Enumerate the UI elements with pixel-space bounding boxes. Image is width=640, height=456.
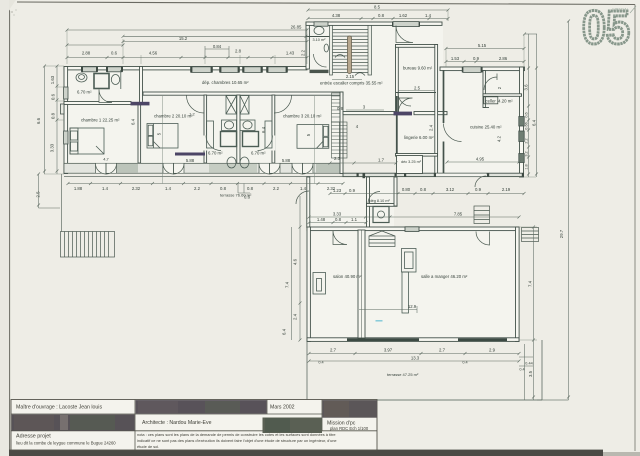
title col line c xyxy=(321,400,323,431)
french door pair 3 xyxy=(259,164,280,173)
bureau top wall xyxy=(396,45,438,48)
salon chimney box xyxy=(313,273,326,295)
svg-text:1.43: 1.43 xyxy=(286,51,295,56)
svg-text:3.33: 3.33 xyxy=(50,143,55,152)
cuisine right wall xyxy=(520,67,524,177)
shower bath left xyxy=(221,132,237,147)
arc bath right door xyxy=(258,136,273,151)
arc entry top door xyxy=(396,26,413,43)
window top wall w4 xyxy=(220,67,239,73)
svg-text:2.7: 2.7 xyxy=(439,347,446,352)
bath wardrobe left xyxy=(207,121,214,148)
svg-text:nota : ces plans sont les plan: nota : ces plans sont les plans de la de… xyxy=(137,432,336,437)
basement stair lower xyxy=(332,122,348,158)
lintel entry closet xyxy=(175,153,205,156)
arc middle door xyxy=(296,191,309,204)
dim right cuisine outer chain xyxy=(536,34,538,177)
bureau bottom wall xyxy=(396,92,436,94)
bathroom block right wall xyxy=(272,95,275,163)
title col line b xyxy=(266,400,268,415)
wing bottom wall window segs xyxy=(117,164,138,173)
bath left door gap xyxy=(204,136,208,151)
svg-text:3.97: 3.97 xyxy=(384,347,393,352)
lower block top wall xyxy=(307,227,519,231)
dim lower-left vertical chain xyxy=(299,196,301,340)
cellar left wall xyxy=(483,71,485,108)
basin bath right counter xyxy=(240,120,255,131)
lintel bathroom door xyxy=(131,102,150,106)
bureau left wall xyxy=(396,45,399,115)
arc chambre2 door xyxy=(187,96,205,114)
dim left wing outer chain xyxy=(44,66,46,174)
shelving salle a manger top xyxy=(369,236,395,247)
cellar label box xyxy=(484,97,498,104)
wing bottom wall band xyxy=(64,163,343,173)
ext right xyxy=(448,10,568,400)
svg-text:3.5: 3.5 xyxy=(528,370,533,377)
dim lower block top row2 xyxy=(309,222,366,224)
svg-text:3.33: 3.33 xyxy=(333,211,342,216)
svg-text:6.4: 6.4 xyxy=(131,118,136,125)
window cuisine right c xyxy=(519,154,524,163)
stair central rail xyxy=(348,36,352,74)
svg-text:0.4: 0.4 xyxy=(462,361,467,365)
corridor wall xyxy=(143,92,343,95)
window left wall bump xyxy=(61,104,65,114)
bathrooms center: closets xyxy=(226,96,237,115)
corner speckles xyxy=(11,11,12,12)
svg-text:0.8: 0.8 xyxy=(220,186,227,191)
svg-text:6.70 m²: 6.70 m² xyxy=(251,151,266,156)
svg-text:4.56: 4.56 xyxy=(149,51,158,56)
page border left xyxy=(9,11,11,450)
redacted cell row2 left xyxy=(12,415,135,431)
redacted cell row1 xyxy=(136,400,267,414)
arc cellar door xyxy=(484,74,497,91)
svg-text:13.3: 13.3 xyxy=(411,355,420,360)
svg-text:0.4: 0.4 xyxy=(519,368,524,372)
svg-text:2.86: 2.86 xyxy=(499,56,508,61)
terrace small mark xyxy=(376,320,383,322)
salle deau wall vertical xyxy=(367,177,370,228)
title row line 2 xyxy=(11,430,377,432)
svg-text:1.8: 1.8 xyxy=(525,164,529,169)
steps middle (to salle a manger) xyxy=(474,206,490,224)
svg-text:celler 4.20 m²: celler 4.20 m² xyxy=(486,98,514,103)
dim 3 corridor xyxy=(346,109,384,111)
french door pair 4 xyxy=(292,164,313,173)
window left wall b xyxy=(64,131,68,144)
page border top-left diagonal xyxy=(1,1,10,12)
page border top xyxy=(17,2,635,5)
salle deau wall horizontal xyxy=(367,204,398,207)
svg-text:chambre 2 20.10 m²: chambre 2 20.10 m² xyxy=(154,113,193,118)
stair block left line xyxy=(329,25,331,75)
basement stair upper xyxy=(332,93,348,158)
svg-text:1.48: 1.48 xyxy=(317,217,326,222)
dim lower block 13.3 xyxy=(309,360,519,362)
ext cuisine top xyxy=(446,34,524,67)
dim chain 26.85 xyxy=(67,29,307,31)
svg-text:0.6: 0.6 xyxy=(111,51,118,56)
svg-text:1.23: 1.23 xyxy=(333,188,342,193)
svg-text:2.2: 2.2 xyxy=(525,138,529,143)
svg-text:dép. chambres 10.65 m²: dép. chambres 10.65 m² xyxy=(202,80,249,85)
dim chain entry row2 xyxy=(308,18,448,20)
window top wall w1 xyxy=(82,67,97,72)
shower bath right xyxy=(243,132,259,147)
rotated dimension labels xyxy=(36,49,565,377)
dim far right 29.7 xyxy=(568,21,570,400)
svg-text:0.84: 0.84 xyxy=(213,44,222,49)
svg-text:2.2: 2.2 xyxy=(194,186,201,191)
svg-text:1.4: 1.4 xyxy=(300,186,307,191)
dim chain row3 left xyxy=(67,57,307,59)
dim 2.5 bureau line xyxy=(398,90,435,92)
window lower top wall xyxy=(405,227,419,232)
svg-text:6.6: 6.6 xyxy=(36,117,41,124)
cellar bottom wall xyxy=(483,94,522,97)
svg-text:plan RDC Ech 1/100: plan RDC Ech 1/100 xyxy=(330,426,369,431)
french door pair 2 xyxy=(163,164,184,173)
svg-text:14B2/GA/: 14B2/GA/ xyxy=(612,8,628,12)
svg-text:2.2: 2.2 xyxy=(273,186,280,191)
stair arrow marks xyxy=(335,55,345,58)
arc salon top door xyxy=(333,231,347,245)
caps right block bottom wall xyxy=(357,173,525,178)
basin partition bathroom xyxy=(120,70,122,89)
dim lower block top chain xyxy=(309,216,519,218)
svg-text:1.88: 1.88 xyxy=(74,186,83,191)
svg-text:6.4: 6.4 xyxy=(282,328,287,335)
svg-text:5.15: 5.15 xyxy=(478,43,487,48)
window top wall w2 xyxy=(107,67,122,72)
svg-text:4.2: 4.2 xyxy=(497,135,502,142)
svg-text:2.5: 2.5 xyxy=(36,191,41,198)
window cuisine right a xyxy=(519,117,524,127)
svg-text:6.70 m²: 6.70 m² xyxy=(77,90,92,95)
bathroom bottom wall xyxy=(64,102,131,105)
window top wall w3 xyxy=(191,67,212,73)
room interior light fills xyxy=(66,24,523,338)
lintel corridor door xyxy=(394,112,413,116)
window caps xyxy=(81,22,483,73)
dim 4.95 cuisine xyxy=(447,161,519,163)
svg-text:3.2: 3.2 xyxy=(525,151,529,156)
window top wall w6 xyxy=(267,67,287,73)
svg-text:0.66: 0.66 xyxy=(525,122,529,129)
lower block bottom wall xyxy=(307,338,519,342)
svg-text:chambre 3 20.10 m²: chambre 3 20.10 m² xyxy=(283,113,322,118)
svg-text:indicatif ce ne sont pas des: indicatif ce ne sont pas des plans d'exé… xyxy=(137,438,337,443)
entry wc partition xyxy=(306,36,330,38)
svg-text:lieu dit la combe de leygue co: lieu dit la combe de leygue commune le B… xyxy=(16,441,116,446)
bathroom block center divider xyxy=(237,95,240,163)
svg-text:0.80: 0.80 xyxy=(402,187,411,192)
dim left 2.5 chain xyxy=(38,174,40,208)
middle block left wall xyxy=(307,177,310,228)
entry vestibule dark wall xyxy=(310,70,329,73)
svg-text:4.95: 4.95 xyxy=(476,156,485,161)
connector line left xyxy=(61,174,63,232)
ext lines top left xyxy=(67,28,307,64)
basin bath left counter xyxy=(222,120,237,131)
steps right of salle a manger xyxy=(522,228,539,242)
arc bath left door xyxy=(206,136,221,151)
svg-text:0.9: 0.9 xyxy=(337,106,344,111)
arc salle deau door xyxy=(368,192,380,204)
svg-text:1.63: 1.63 xyxy=(50,75,55,84)
svg-text:1.1: 1.1 xyxy=(351,217,358,222)
svg-text:0.4: 0.4 xyxy=(318,361,323,365)
salle deau right wall xyxy=(394,177,397,206)
svg-text:12.9: 12.9 xyxy=(408,304,417,309)
svg-text:dég 8.10 m²: dég 8.10 m² xyxy=(370,199,391,203)
svg-text:2.3: 2.3 xyxy=(334,156,341,161)
svg-text:1.62: 1.62 xyxy=(399,13,408,18)
title col line a xyxy=(134,400,136,451)
svg-text:terrasse 47.25 m²: terrasse 47.25 m² xyxy=(387,372,419,377)
entry block left wall xyxy=(306,22,309,69)
basin bathroom top-left xyxy=(111,75,119,85)
svg-text:2.15: 2.15 xyxy=(346,74,355,79)
window left wall a xyxy=(64,87,68,99)
dim corridor right small xyxy=(330,162,396,164)
svg-text:salon 40.90 m²: salon 40.90 m² xyxy=(333,274,362,279)
title block outer frame xyxy=(11,400,377,451)
dim 2.15 stairs xyxy=(332,79,362,81)
scan corner shading top-left xyxy=(0,0,16,12)
svg-text:1.53: 1.53 xyxy=(451,56,460,61)
svg-text:0.6: 0.6 xyxy=(244,194,251,199)
svg-text:3.6: 3.6 xyxy=(524,84,529,91)
svg-text:6.70 m²: 6.70 m² xyxy=(208,151,223,156)
svg-text:0.8: 0.8 xyxy=(420,187,427,192)
arc cuisine left wall door xyxy=(444,124,462,142)
corridor wall right section xyxy=(343,112,397,115)
wc bath right xyxy=(240,157,249,168)
svg-text:2.9: 2.9 xyxy=(489,347,496,352)
wc entry oval xyxy=(314,27,324,35)
svg-text:2.5: 2.5 xyxy=(414,85,421,90)
svg-text:7.4: 7.4 xyxy=(528,280,533,287)
svg-text:2.19: 2.19 xyxy=(502,187,511,192)
svg-text:26.85: 26.85 xyxy=(291,24,302,29)
right block bottom wall xyxy=(343,173,524,176)
chambre3 right wall xyxy=(340,92,343,174)
svg-text:7.4: 7.4 xyxy=(285,281,290,288)
cuisine left wall xyxy=(443,70,445,123)
wc bath left xyxy=(227,157,236,168)
dim right lower chain 7.4 xyxy=(533,227,535,400)
svg-text:0.8: 0.8 xyxy=(247,186,254,191)
svg-text:15.2: 15.2 xyxy=(179,36,188,41)
svg-text:2.4: 2.4 xyxy=(293,313,298,320)
svg-text:chambre 1 22.25 m²: chambre 1 22.25 m² xyxy=(81,117,120,122)
svg-text:0.9: 0.9 xyxy=(473,56,480,61)
mini dim 0.84 xyxy=(205,46,229,57)
svg-text:lingerie 6.00 m²: lingerie 6.00 m² xyxy=(404,135,434,140)
svg-text:salle a manger 46.20 m²: salle a manger 46.20 m² xyxy=(421,274,468,279)
svg-text:étude de sol.: étude de sol. xyxy=(137,444,159,449)
window entry top wall b xyxy=(314,22,328,26)
dim chain left segment y45 xyxy=(67,44,123,46)
middle block shower xyxy=(373,207,389,223)
svg-text:Adresse projet: Adresse projet xyxy=(16,434,51,440)
cuisine top wall xyxy=(440,67,525,71)
glazing salon xyxy=(347,338,419,341)
dim chain cuisine row2 xyxy=(446,61,524,63)
svg-text:1.4: 1.4 xyxy=(425,13,432,18)
svg-text:0.9: 0.9 xyxy=(349,188,356,193)
bath wardrobe right xyxy=(265,121,272,148)
svg-text:déc 3.25 m²: déc 3.25 m² xyxy=(401,160,422,164)
steps block bottom-left xyxy=(61,232,115,258)
svg-text:0.44: 0.44 xyxy=(525,362,532,366)
svg-text:0.8: 0.8 xyxy=(51,112,56,119)
dim wing terrace chain xyxy=(68,183,343,185)
shower bathroom top-left xyxy=(94,74,109,89)
svg-text:2.8: 2.8 xyxy=(235,48,242,53)
redacted cell right top xyxy=(322,400,377,418)
dim right block bottom chain xyxy=(330,193,524,195)
svg-text:1.7: 1.7 xyxy=(378,157,385,162)
dim chain 15.2 xyxy=(123,41,307,43)
terrace lower outline xyxy=(307,340,542,400)
svg-text:4,7: 4,7 xyxy=(103,157,109,162)
svg-text:3.10 m²: 3.10 m² xyxy=(313,38,327,42)
dim left wing inner chain xyxy=(56,66,58,174)
dim right cuisine inner chain xyxy=(528,34,530,177)
svg-text:2.7: 2.7 xyxy=(330,347,337,352)
salle a manger cabinet xyxy=(402,249,417,273)
svg-text:Maître d'ouvrage : Lacoste Jea: Maître d'ouvrage : Lacoste Jean louis xyxy=(16,404,102,410)
svg-text:2.88: 2.88 xyxy=(82,51,91,56)
dim lower block bottom chain xyxy=(309,353,519,355)
svg-text:2.2: 2.2 xyxy=(301,49,306,56)
svg-text:5.88: 5.88 xyxy=(186,158,195,163)
svg-text:bureau 9.60 m²: bureau 9.60 m² xyxy=(403,65,433,70)
dim 12.9 salon xyxy=(359,309,417,311)
svg-text:8.5: 8.5 xyxy=(374,5,381,10)
french door pair 1 xyxy=(96,164,117,173)
lingerie bottom wall xyxy=(396,154,438,157)
wc bathroom top-left xyxy=(76,73,87,82)
svg-text:5.88: 5.88 xyxy=(282,158,291,163)
svg-text:0.6: 0.6 xyxy=(51,93,56,100)
window cuisine top a xyxy=(463,67,481,73)
dim chain 15.2 upper line xyxy=(123,35,306,37)
entry basin oval xyxy=(324,44,328,52)
svg-text:cuisine 25.40 m²: cuisine 25.40 m² xyxy=(470,124,502,129)
dim chain entry top 8.5 xyxy=(308,9,448,11)
svg-text:1.4: 1.4 xyxy=(165,186,172,191)
dim chain cuisine 5.15 xyxy=(446,48,524,50)
svg-text:7.85: 7.85 xyxy=(454,211,463,216)
svg-text:1.4: 1.4 xyxy=(102,186,109,191)
lower block bottom glazing thick segments xyxy=(347,321,507,340)
svg-text:2.32: 2.32 xyxy=(132,186,141,191)
svg-text:0.8: 0.8 xyxy=(378,13,385,18)
redacted cell row2 mid xyxy=(263,418,323,434)
svg-text:29.7: 29.7 xyxy=(559,229,564,238)
chambre1-2 divider xyxy=(138,105,141,164)
bed chambre1 xyxy=(70,128,104,154)
title row line 1 xyxy=(11,413,377,415)
window entry top wall xyxy=(393,22,419,27)
lower block left wall xyxy=(307,227,310,341)
lingerie left wall lower xyxy=(396,96,398,154)
wing left wall xyxy=(64,67,68,174)
svg-text:Mars 2002: Mars 2002 xyxy=(270,404,295,410)
arc wc entry xyxy=(314,54,327,67)
bed chambre3 xyxy=(297,125,329,149)
svg-text:6.4: 6.4 xyxy=(261,126,266,133)
lower block right wall xyxy=(516,227,520,341)
stair treads xyxy=(333,30,369,73)
salon divider wall xyxy=(358,230,365,338)
svg-text:6.4: 6.4 xyxy=(532,119,537,126)
bottom scan band xyxy=(0,450,603,456)
left margin shade xyxy=(0,0,9,456)
arc bureau door2 xyxy=(398,93,411,106)
bed chambre2 xyxy=(147,124,178,149)
stair stringers xyxy=(330,26,333,76)
svg-text:entrée escalier compris 35.55: entrée escalier compris 35.55 m² xyxy=(320,81,383,86)
window top wall w5 xyxy=(243,67,262,73)
arc cuisine bottom door xyxy=(475,176,486,187)
bathroom right wall xyxy=(140,67,143,104)
ext lines through rooms xyxy=(163,96,315,184)
arc bureau door xyxy=(399,98,413,112)
dim 2.90 top right xyxy=(525,33,538,35)
glazing salle a manger xyxy=(458,338,507,341)
step 0.44 marks xyxy=(519,344,533,400)
arc salle a manger top door xyxy=(476,232,490,246)
svg-text:0.9: 0.9 xyxy=(475,187,482,192)
stairs main xyxy=(330,26,396,247)
bureau right wall xyxy=(435,45,438,175)
svg-text:2.4: 2.4 xyxy=(429,124,434,131)
window cuisine right b xyxy=(519,131,524,142)
arc bathroom1 xyxy=(99,90,112,103)
svg-text:0.6: 0.6 xyxy=(525,112,529,117)
svg-text:0.8: 0.8 xyxy=(335,217,342,222)
wing outer top wall xyxy=(64,67,307,70)
wing bottom threshold line xyxy=(64,175,343,177)
page border right xyxy=(634,5,636,452)
entry block top wall xyxy=(306,22,442,25)
svg-text:4.38: 4.38 xyxy=(332,13,341,18)
bathroom block left wall xyxy=(204,95,207,163)
dec closet box xyxy=(397,156,423,174)
terrace step mark xyxy=(238,184,250,194)
svg-text:3.12: 3.12 xyxy=(446,187,455,192)
svg-text:4.6: 4.6 xyxy=(293,258,298,265)
ext left xyxy=(44,66,64,174)
svg-text:Architecte : Nardou Marie-Eve: Architecte : Nardou Marie-Eve xyxy=(142,420,212,426)
arc chambre3 door xyxy=(274,96,292,114)
